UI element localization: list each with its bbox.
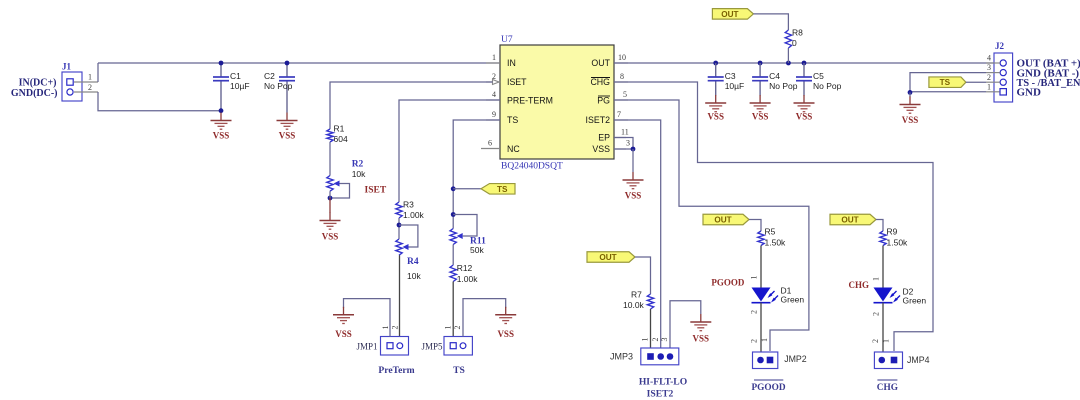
wire JMP1 pin1 to ground — [344, 299, 391, 337]
U7 right pin labels — [586, 58, 611, 154]
svg-text:VSS: VSS — [213, 131, 230, 141]
capacitor C3 10uF — [708, 63, 745, 96]
wire U7 pin9 TS down — [453, 120, 500, 229]
junction TS flag — [451, 186, 456, 191]
wire IN rail to U7 pin1 — [98, 62, 500, 64]
svg-text:PG: PG — [597, 96, 610, 106]
net flag TS — [481, 184, 515, 195]
svg-text:R2: R2 — [352, 160, 364, 170]
wire J2 pin1 to ground junction — [910, 91, 986, 93]
wire J1 pin1 riser — [97, 63, 99, 82]
potentiometer R2 — [327, 176, 350, 199]
wire OUT flag to R5 — [749, 220, 761, 232]
svg-text:R12: R12 — [457, 263, 473, 273]
wire U7 pin2 ISET to R1 — [330, 82, 493, 129]
wire U7 VSS pin3 — [614, 148, 633, 150]
JMP4 pin numbers — [871, 339, 891, 343]
svg-text:VSS: VSS — [796, 112, 813, 122]
JMP5 pin numbers — [443, 326, 461, 330]
svg-text:3: 3 — [626, 139, 630, 148]
svg-text:CHG: CHG — [590, 77, 610, 87]
resistor R5 — [758, 227, 786, 248]
svg-text:GND(DC-): GND(DC-) — [11, 88, 58, 99]
svg-text:VSS: VSS — [707, 112, 724, 122]
svg-text:2: 2 — [750, 339, 759, 343]
resistor R9 — [880, 227, 908, 248]
svg-text:1.00k: 1.00k — [403, 210, 425, 220]
svg-text:VSS: VSS — [335, 329, 352, 339]
net flag OUT at R7 — [587, 252, 635, 263]
net flag OUT top — [712, 9, 753, 20]
wire OUT rail U7 pin10 to J2 pin4 — [614, 62, 994, 64]
svg-text:R9: R9 — [887, 227, 898, 237]
svg-text:1: 1 — [750, 276, 759, 280]
svg-text:1: 1 — [88, 73, 92, 82]
svg-text:VSS: VSS — [902, 115, 919, 125]
svg-text:R7: R7 — [631, 290, 642, 300]
connector JMP1 — [381, 337, 409, 356]
ground VSS under C2 — [277, 113, 298, 141]
svg-text:50k: 50k — [470, 245, 484, 255]
wire R5 to D1 — [760, 246, 762, 288]
wire U7 pin4 PRE-TERM to R3 — [399, 100, 500, 202]
ground VSS under C3 — [705, 95, 726, 122]
svg-text:PGOOD: PGOOD — [751, 383, 785, 393]
ground VSS right of JMP5 — [495, 307, 516, 339]
svg-text:JMP3: JMP3 — [610, 352, 633, 362]
wire JMP5 pin2 to ground — [463, 299, 506, 337]
junction at C4 — [758, 61, 763, 66]
svg-text:2: 2 — [750, 310, 759, 314]
svg-text:5: 5 — [623, 90, 627, 99]
svg-text:R3: R3 — [403, 200, 414, 210]
JMP3 pin numbers — [641, 338, 670, 342]
wire R8 to rail — [787, 48, 789, 63]
svg-text:C3: C3 — [725, 71, 736, 81]
svg-text:J2: J2 — [995, 41, 1005, 51]
U7 NC pin6 stub — [481, 148, 500, 150]
JMP2 pin numbers — [750, 338, 769, 343]
svg-text:2: 2 — [872, 312, 881, 316]
svg-text:4: 4 — [987, 53, 991, 62]
svg-text:PGOOD: PGOOD — [711, 278, 744, 288]
svg-text:3: 3 — [987, 63, 991, 72]
svg-text:TS: TS — [453, 365, 465, 376]
svg-text:EP: EP — [598, 133, 610, 143]
ground VSS right of JMP3 — [690, 314, 711, 344]
ground VSS left of JMP1 — [333, 307, 354, 339]
potentiometer R4 — [396, 225, 418, 255]
svg-text:PreTerm: PreTerm — [378, 365, 414, 376]
wire TS flag to J2 pin2 — [966, 81, 986, 83]
wire JMP3 pin3 to ground — [670, 301, 701, 348]
svg-text:Green: Green — [903, 296, 927, 306]
capacitor C5 No Pop — [796, 63, 842, 96]
wire U7 EP pin11 to junction — [614, 138, 633, 150]
U7 right pin numbers — [617, 53, 630, 148]
wire R2 to ground — [329, 191, 331, 198]
svg-text:1: 1 — [760, 338, 769, 342]
wire OUT flag to R9 — [876, 220, 883, 232]
potentiometer R11 — [450, 215, 477, 245]
wire OUT flag to R7 — [635, 257, 651, 294]
svg-text:10k: 10k — [352, 169, 366, 179]
svg-text:VSS: VSS — [279, 131, 296, 141]
resistor R12 — [450, 263, 478, 284]
svg-text:9: 9 — [492, 110, 496, 119]
wire R4 to JMP1 pin2 — [399, 255, 401, 336]
svg-text:CHG: CHG — [877, 383, 898, 393]
svg-text:VSS: VSS — [497, 329, 514, 339]
U7 pin2 input triangle — [493, 80, 500, 85]
svg-text:1: 1 — [443, 326, 452, 330]
svg-text:10: 10 — [618, 53, 626, 62]
ground VSS under R2 — [320, 213, 341, 242]
wire to TS flag — [453, 188, 481, 190]
svg-text:C2: C2 — [264, 71, 275, 81]
svg-text:J1: J1 — [62, 62, 72, 72]
svg-text:6: 6 — [488, 139, 492, 148]
wire OUT flag to R8 — [753, 14, 788, 30]
junction above R11 — [451, 212, 456, 217]
svg-text:VSS: VSS — [322, 232, 339, 242]
svg-text:0: 0 — [792, 38, 797, 48]
svg-text:1: 1 — [882, 339, 891, 343]
resistor R8 — [785, 28, 803, 49]
svg-text:ISET: ISET — [507, 77, 527, 87]
net flag OUT at R5 — [703, 214, 749, 225]
wire R7 to JMP3 pin1 — [650, 309, 652, 348]
svg-text:JMP2: JMP2 — [784, 354, 807, 364]
wire R9 to D2 — [882, 246, 884, 288]
svg-text:VSS: VSS — [752, 112, 769, 122]
wire R1 to R2 — [329, 142, 331, 176]
wire R3 to junction — [398, 218, 400, 239]
junction VSS pin3 — [631, 147, 636, 152]
junction at C1 top — [219, 61, 224, 66]
svg-text:8: 8 — [620, 72, 624, 81]
label PGOOD under JMP2 with overline — [751, 380, 785, 393]
svg-text:10.0k: 10.0k — [623, 300, 645, 310]
svg-text:No Pop: No Pop — [769, 81, 798, 91]
svg-text:1.50k: 1.50k — [765, 238, 787, 248]
svg-text:BQ24040DSQT: BQ24040DSQT — [501, 162, 563, 172]
svg-text:1.00k: 1.00k — [457, 274, 479, 284]
connector J2 — [986, 53, 1013, 102]
svg-text:OUT: OUT — [721, 10, 738, 19]
connector JMP4 — [874, 352, 902, 369]
svg-text:C1: C1 — [230, 71, 241, 81]
svg-text:1: 1 — [381, 326, 390, 330]
U7 pin stubs — [486, 63, 628, 149]
svg-text:7: 7 — [617, 110, 621, 119]
svg-text:R1: R1 — [334, 124, 345, 134]
svg-text:1: 1 — [872, 277, 881, 281]
svg-text:JMP5: JMP5 — [421, 342, 443, 352]
wire junction to ground — [632, 149, 634, 172]
wire J2 pin3 to ground junction — [910, 73, 986, 93]
svg-text:10µF: 10µF — [725, 81, 745, 91]
svg-text:1: 1 — [492, 53, 496, 62]
wire U7 pin8 CHG to JMP4 pin1 — [614, 82, 933, 351]
J2 pin numbers — [987, 53, 991, 91]
svg-text:OUT: OUT — [714, 216, 731, 225]
wire U7 pin7 ISET2 to JMP3 pin2 — [614, 120, 661, 348]
svg-text:1: 1 — [987, 83, 991, 92]
svg-text:10k: 10k — [407, 271, 421, 281]
junction below R2 — [328, 196, 333, 201]
svg-text:604: 604 — [334, 134, 348, 144]
svg-text:2: 2 — [987, 73, 991, 82]
ground VSS under J2 — [900, 97, 921, 125]
svg-text:JMP4: JMP4 — [907, 355, 930, 365]
svg-text:JMP1: JMP1 — [356, 342, 377, 352]
svg-text:No Pop: No Pop — [813, 81, 842, 91]
svg-text:GND: GND — [1017, 87, 1042, 99]
svg-text:2: 2 — [453, 326, 462, 330]
ground VSS under C1 — [211, 113, 232, 141]
svg-text:2: 2 — [88, 83, 92, 92]
wire U7 pin5 PG to JMP2 pin1 — [614, 100, 809, 351]
resistor R3 — [396, 200, 425, 221]
LED D1 — [752, 288, 779, 303]
svg-text:Green: Green — [781, 295, 805, 305]
svg-text:HI-FLT-LO: HI-FLT-LO — [639, 377, 687, 388]
svg-text:IN: IN — [507, 58, 516, 68]
junction at C1 bottom — [219, 108, 224, 113]
svg-text:11: 11 — [621, 128, 629, 137]
junction above R4 — [397, 223, 402, 228]
svg-text:TS: TS — [497, 185, 508, 194]
LED D2 — [874, 288, 901, 303]
wire D2 to JMP4 pin2 — [882, 303, 884, 353]
ground VSS under U7 — [623, 172, 644, 201]
svg-text:4: 4 — [492, 90, 496, 99]
capacitor C4 No Pop — [752, 63, 798, 96]
resistor R7 — [623, 290, 654, 311]
junction at C5 — [802, 61, 807, 66]
capacitor C1 10uF — [213, 63, 250, 111]
wire junction down to ground — [909, 92, 911, 97]
svg-text:C5: C5 — [813, 71, 824, 81]
connector JMP5 — [444, 337, 472, 356]
junction at C2 top — [285, 61, 290, 66]
ground VSS under C5 — [794, 95, 815, 122]
svg-text:U7: U7 — [501, 35, 513, 45]
capacitor C2 No Pop — [264, 63, 295, 113]
svg-text:1.50k: 1.50k — [887, 238, 909, 248]
net flag OUT at R9 — [830, 214, 876, 225]
op-amp/IC U7 BQ24040DSQT body — [500, 45, 614, 159]
svg-text:VSS: VSS — [625, 191, 642, 201]
connector JMP3 — [641, 348, 679, 365]
svg-text:R8: R8 — [792, 28, 803, 38]
junction J2 ground — [908, 90, 913, 95]
svg-text:1: 1 — [641, 338, 650, 342]
wire J1 pin2 to C1 bottom — [98, 92, 221, 111]
label CHG under JMP4 with overline — [877, 380, 898, 393]
wire D1 to JMP2 pin2 — [760, 303, 762, 353]
junction at C3 — [713, 61, 718, 66]
svg-text:OUT: OUT — [841, 216, 858, 225]
svg-text:R4: R4 — [407, 257, 419, 267]
U7 left pin numbers — [488, 53, 496, 148]
svg-text:2: 2 — [391, 326, 400, 330]
svg-text:VSS: VSS — [693, 334, 710, 344]
svg-text:ISET2: ISET2 — [647, 389, 674, 400]
svg-text:TS: TS — [507, 115, 518, 125]
wire R12 to JMP5 pin1 — [452, 282, 454, 337]
connector J1 — [62, 72, 98, 101]
svg-text:VSS: VSS — [592, 144, 610, 154]
wire R11 to R12 — [452, 245, 454, 266]
resistor R1 — [327, 124, 348, 145]
svg-text:No Pop: No Pop — [264, 81, 293, 91]
svg-text:TS: TS — [940, 78, 951, 87]
svg-text:R5: R5 — [765, 227, 776, 237]
junction at R8 — [786, 61, 791, 66]
connector JMP2 — [753, 352, 778, 369]
svg-text:2: 2 — [871, 339, 880, 343]
svg-text:PRE-TERM: PRE-TERM — [507, 96, 553, 106]
svg-text:OUT: OUT — [599, 253, 616, 262]
svg-text:2: 2 — [651, 338, 660, 342]
svg-text:C4: C4 — [769, 71, 780, 81]
svg-text:10µF: 10µF — [230, 81, 250, 91]
svg-text:ISET2: ISET2 — [586, 115, 611, 125]
svg-text:3: 3 — [660, 338, 669, 342]
U7 left pin labels — [507, 58, 553, 154]
svg-text:NC: NC — [507, 144, 520, 154]
svg-text:CHG: CHG — [848, 280, 869, 290]
svg-text:OUT: OUT — [591, 58, 610, 68]
ground VSS under C4 — [750, 95, 771, 122]
svg-text:ISET: ISET — [365, 186, 387, 196]
net flag TS at J2 — [929, 77, 966, 88]
JMP1 pin numbers — [381, 326, 400, 330]
